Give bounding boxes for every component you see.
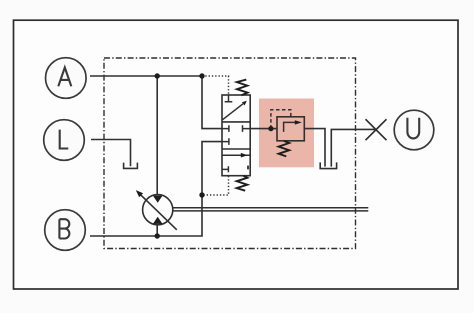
relief valve RV1 xyxy=(271,110,304,157)
relief spring xyxy=(279,141,290,156)
tank T1 xyxy=(320,162,336,168)
position 2: blocked left port upper xyxy=(222,125,229,132)
position 1: flow arrow diagonal xyxy=(222,104,243,120)
wire L line xyxy=(91,140,131,167)
position 3: blocked left port xyxy=(222,166,228,172)
pilot line A to valve top (dotted) xyxy=(202,76,229,95)
spring top xyxy=(237,80,248,96)
port L xyxy=(44,120,85,161)
wire valve to relief valve xyxy=(250,128,277,130)
junction dot A/pump xyxy=(155,73,160,78)
position 1: blocked port xyxy=(225,95,233,102)
position 3: right port stub xyxy=(247,166,249,170)
pilot line valve bottom to B branch (dotted) xyxy=(202,176,229,195)
port A xyxy=(46,58,87,99)
relief valve highlight xyxy=(259,99,314,168)
plug X at port U xyxy=(366,119,387,140)
pump P1 variable displacement xyxy=(136,190,177,230)
wire A branch to valve port xyxy=(202,76,222,129)
wire A line xyxy=(90,75,202,77)
spring bottom xyxy=(237,176,248,191)
tank T2 (L drain) xyxy=(124,163,138,169)
wire drain double line lower xyxy=(172,210,368,212)
wire pump top branch xyxy=(156,76,158,195)
wire drain double line upper xyxy=(172,207,368,209)
wire tank to plug U xyxy=(331,129,376,166)
valve V1 3-position directional xyxy=(222,80,250,191)
junction dot pilot/B branch xyxy=(199,192,204,197)
junction dot relief pilot tap xyxy=(268,126,273,131)
position 2: blocked right port xyxy=(243,125,251,132)
wire pump bottom branch xyxy=(156,225,158,237)
junction dot B/pump xyxy=(155,233,160,238)
port B xyxy=(45,210,86,251)
pilot dashed line xyxy=(271,110,291,129)
wire relief output to tank xyxy=(304,129,325,167)
enclosure boundary (dash-dot) xyxy=(104,58,356,249)
position 2: blocked left port lower xyxy=(222,138,229,145)
port U xyxy=(394,110,434,150)
junction dot A/valve branch xyxy=(199,73,204,78)
wire valve port to B line xyxy=(90,142,222,236)
position 3: through-flow arrow xyxy=(222,154,250,156)
